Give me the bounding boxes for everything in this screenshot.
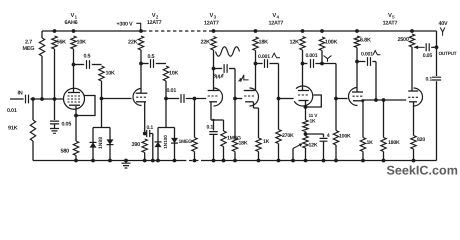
svg-text:1K: 1K xyxy=(263,139,270,145)
node 180K junction xyxy=(382,98,386,102)
wire 0.001 to corner V5 xyxy=(372,61,376,63)
wire 100K lower to ground xyxy=(335,145,337,161)
svg-text:270K: 270K xyxy=(282,133,294,139)
svg-text:10K: 10K xyxy=(169,71,179,77)
waveform mark 0.001 xyxy=(272,53,280,58)
waveform sine annotation xyxy=(216,47,240,57)
node ground clamp-2 left xyxy=(156,159,160,163)
svg-text:820: 820 xyxy=(417,137,425,143)
svg-text:1N88: 1N88 xyxy=(98,137,104,149)
resistor R25 2500 pot plate xyxy=(409,34,414,47)
svg-text:22K: 22K xyxy=(128,40,138,46)
resistor R10 1MEG grid leak V3 xyxy=(192,138,197,152)
resistor R8 10K series V2 xyxy=(163,66,168,81)
svg-text:12AT7: 12AT7 xyxy=(269,21,284,27)
wire V4-A cathode lead xyxy=(305,101,307,120)
wire ground bus left segment xyxy=(33,160,183,162)
wire to 4uF xyxy=(306,133,324,135)
diode CR1 1N88 xyxy=(90,142,97,147)
capacitor 0.1 cathode bypass V2 xyxy=(147,130,150,137)
tube V4-B envelope xyxy=(349,88,358,106)
wire 1MEG to ground xyxy=(194,152,196,161)
svg-text:1MEG: 1MEG xyxy=(179,139,193,145)
capacitor 4uF xyxy=(320,138,328,141)
node 1MEG grid leak xyxy=(193,97,197,101)
svg-text:100K: 100K xyxy=(325,40,338,46)
svg-text:1MEG: 1MEG xyxy=(227,136,241,142)
resistor R5 10K series xyxy=(99,66,104,81)
svg-text:0.001: 0.001 xyxy=(258,54,270,60)
node output xyxy=(435,45,439,49)
wire 0.05 to ground xyxy=(54,124,56,129)
node rail 100K upper xyxy=(320,29,324,33)
wire 580 to ground bus xyxy=(75,156,77,161)
svg-text:1N100: 1N100 xyxy=(163,135,168,149)
resistor R12 18K grid V3-B xyxy=(232,138,237,152)
wiper arrow 12K pot xyxy=(293,145,300,149)
node ground 270K xyxy=(277,159,281,163)
resistor R11 22K plate V3-A xyxy=(211,37,216,51)
wire V3-A plate lead xyxy=(213,69,215,91)
svg-text:1: 1 xyxy=(75,15,78,20)
resistor R15 1K cathode V3-B xyxy=(256,138,261,152)
wire grid line V1 xyxy=(30,98,63,100)
wire clamp-2 right leg xyxy=(174,128,176,161)
node ground 1K xyxy=(257,159,261,163)
wire 18K to ground xyxy=(234,152,236,161)
node ground 580 xyxy=(74,159,78,163)
wire clamp-2 top bar xyxy=(158,127,175,129)
capacitor 0.1 bypass V3-A xyxy=(209,132,217,135)
wire V1 suppressor-cathode loop xyxy=(76,96,95,116)
wire 0.05 cap lead xyxy=(54,99,56,120)
node rail 10K V1 xyxy=(72,29,76,33)
node V3-A plate xyxy=(212,67,216,71)
wire pot to V5 plate xyxy=(411,47,413,91)
wire 390 to ground xyxy=(144,153,146,161)
node cathode divider xyxy=(304,132,308,136)
node coupling V3 xyxy=(164,97,168,101)
wire 1K to pot xyxy=(305,132,307,137)
wire pot to ground xyxy=(305,148,307,161)
wire down to V4-B grid xyxy=(335,64,337,99)
capacitor 0.001 coupling V4 xyxy=(265,59,268,68)
svg-text:40V: 40V xyxy=(439,21,449,27)
wire cathode jog xyxy=(211,119,224,121)
wire output drop upper xyxy=(436,31,438,76)
capacitor 8uuf feedback xyxy=(224,64,227,73)
wire 4uF top lead xyxy=(323,134,325,137)
wire down to V4-A grid xyxy=(278,64,280,99)
wire +300V top rail left segment xyxy=(42,30,143,32)
waveform mark V4-B grid xyxy=(324,56,332,62)
wire to 1K xyxy=(258,108,260,138)
resistor R13 1MEG cathode V3-A xyxy=(221,131,226,147)
svg-text:2500: 2500 xyxy=(398,37,409,43)
node cathode output xyxy=(362,99,365,102)
wire 270K lead xyxy=(278,99,280,130)
svg-text:0.001: 0.001 xyxy=(361,52,373,58)
node ground 390 xyxy=(143,159,147,163)
svg-text:390: 390 xyxy=(132,142,141,148)
svg-text:5: 5 xyxy=(392,15,395,20)
wire clamp riser 2 xyxy=(165,99,167,128)
tube V5 envelope xyxy=(414,88,423,106)
resistor R22 6.8K plate V4-B xyxy=(354,36,359,48)
node V2 plate xyxy=(139,62,143,66)
svg-text:3: 3 xyxy=(214,15,217,20)
svg-text:0.05: 0.05 xyxy=(62,122,72,128)
wire 270K to ground xyxy=(278,144,280,161)
wire 22K to plate node xyxy=(140,50,142,64)
resistor R2 91K xyxy=(30,120,35,141)
node V2 grid xyxy=(100,97,104,101)
wire 0.01 to V3 grid xyxy=(186,98,206,100)
ground symbol at 0.05 xyxy=(50,129,59,134)
wire clamp-1 left leg xyxy=(92,128,94,161)
wire input lead xyxy=(10,98,24,100)
resistor R24 180K xyxy=(381,138,386,152)
node rail 56K xyxy=(53,29,57,33)
node V1 cathode tie xyxy=(74,114,78,118)
tube V1 6AH6 envelope xyxy=(64,88,85,109)
wire 0.1 bypass lead xyxy=(213,120,215,131)
svg-text:0.01: 0.01 xyxy=(7,108,17,114)
node rail 22K V3 xyxy=(212,29,216,33)
tube V3-B envelope xyxy=(250,88,259,106)
node ground 18K xyxy=(233,159,237,163)
tube V3-A envelope xyxy=(214,88,223,106)
wire ground stub xyxy=(125,161,127,164)
node V3-B grid xyxy=(233,97,237,101)
wire plate B to 0.001 xyxy=(256,63,263,65)
wire clamp-1 right leg xyxy=(109,128,111,161)
waveform mark V5 xyxy=(373,51,380,55)
node V4-A grid xyxy=(277,97,281,101)
svg-text:0.5: 0.5 xyxy=(84,54,91,60)
wire 0.1 bypass to ground xyxy=(213,135,215,161)
wire 180K lead xyxy=(383,100,385,138)
svg-text:OUTPUT: OUTPUT xyxy=(439,51,457,56)
resistor R26 820 cathode xyxy=(411,136,416,150)
svg-text:18K: 18K xyxy=(259,40,269,46)
wire 1MEG top lead xyxy=(194,99,196,138)
node +300V rail junction xyxy=(139,29,143,33)
wire 56K bottom lead xyxy=(54,49,56,99)
wire 12K to plate node xyxy=(302,50,304,64)
wire V2 cathode lead xyxy=(144,102,146,134)
svg-text:4: 4 xyxy=(327,133,330,139)
wire V4-A loop xyxy=(306,95,322,107)
resistor R17 12K plate V4-A xyxy=(300,37,305,51)
node 56K junction xyxy=(53,97,57,101)
wire plate A to 8uuf xyxy=(214,68,223,70)
wire 0.5 to 10K V2 xyxy=(156,63,166,65)
resistor R18 100K upper xyxy=(319,37,324,51)
node V3-B plate xyxy=(254,62,258,66)
wire V4-B cathode hook xyxy=(361,101,363,103)
capacitor 0.5 coupling V2 xyxy=(151,59,154,68)
wire to 1MEG cathode xyxy=(223,120,225,131)
diode CR3 1N100 xyxy=(155,142,162,147)
tube V4-A envelope xyxy=(294,86,313,106)
wire V3-B cathode hook xyxy=(253,102,255,108)
wire 18K to plate node xyxy=(255,51,257,64)
svg-text:IN: IN xyxy=(18,91,23,97)
svg-text:SeekIC.com: SeekIC.com xyxy=(387,164,458,178)
svg-text:12AT7: 12AT7 xyxy=(147,20,162,26)
svg-text:56K: 56K xyxy=(57,40,67,46)
node V4-A plate xyxy=(301,62,305,66)
svg-text:0.001: 0.001 xyxy=(306,53,318,59)
node ground 4uF xyxy=(322,159,326,163)
wire top rail right segment xyxy=(214,30,437,32)
wire plate to 0.001 V5 xyxy=(357,61,365,63)
node ground 180K xyxy=(382,159,386,163)
tube V1 plate xyxy=(68,92,80,94)
resistor R1 2.7 MEG xyxy=(39,38,44,56)
wire to V2 grid xyxy=(102,98,132,100)
node input junction xyxy=(31,97,35,101)
wire V1 plate lead xyxy=(73,65,75,93)
svg-text:580: 580 xyxy=(61,149,70,155)
resistor R21 12K pot xyxy=(303,136,308,148)
svg-text:10K: 10K xyxy=(77,40,87,46)
svg-text:0.1: 0.1 xyxy=(207,125,214,131)
wire 0.5 cap to 10K xyxy=(92,64,102,66)
wire 1K load to ground xyxy=(362,152,364,161)
wiper arrow 2500 pot xyxy=(418,46,425,48)
capacitor 0.05 bypass xyxy=(50,121,59,124)
node 0.001 junction xyxy=(374,98,378,102)
node rail 6.8K xyxy=(355,29,359,33)
capacitor 0.001 coupling V5 xyxy=(368,57,371,66)
node cathode jog xyxy=(212,119,214,121)
wire 1K load lead xyxy=(362,103,364,138)
diode CR2 1N88 xyxy=(107,139,114,144)
wire into V3-B grid xyxy=(235,98,242,100)
capacitor 0.01 coupling V3 xyxy=(181,94,184,103)
capacitor 0.5 coupling V1 xyxy=(87,60,90,69)
wire top rail dashed segment xyxy=(143,30,214,32)
wire 100K lower lead xyxy=(335,99,337,131)
svg-text:180K: 180K xyxy=(388,140,400,146)
wire 180K to ground xyxy=(383,152,385,161)
wire 100K to divider xyxy=(321,51,323,64)
node ground stub xyxy=(124,159,128,163)
node ground 1K load xyxy=(361,159,365,163)
svg-text:1K: 1K xyxy=(367,140,374,146)
svg-text:+300 V: +300 V xyxy=(117,22,134,28)
wire wiper lead xyxy=(292,149,294,161)
wire 10K down to V2 grid node xyxy=(101,81,103,99)
wire 1K to ground xyxy=(258,152,260,161)
resistor R14 18K plate V3-B xyxy=(253,37,258,51)
node ground 100K lower xyxy=(334,159,338,163)
svg-text:0.1: 0.1 xyxy=(426,77,433,83)
node ground 820 xyxy=(412,159,416,163)
wire V4-B plate lead xyxy=(356,62,358,93)
wire 0.05 to output line xyxy=(431,46,436,48)
svg-text:MEG: MEG xyxy=(23,46,35,52)
wire 0.1 jog xyxy=(150,133,153,135)
node ground wiper xyxy=(291,159,295,163)
node ground 1MEG cathode xyxy=(222,159,226,163)
wire 2.7MEG bottom lead xyxy=(41,56,43,99)
node V4-B grid xyxy=(334,97,338,101)
node divider xyxy=(320,62,324,66)
tube V1 grids xyxy=(68,96,81,102)
node ground clamp-2 right xyxy=(173,159,177,163)
wire V4-A plate lead xyxy=(302,64,304,91)
svg-text:10K: 10K xyxy=(106,71,116,77)
svg-text:100K: 100K xyxy=(339,134,351,140)
wire 4uF to ground xyxy=(323,141,325,160)
resistor R3 56K xyxy=(52,36,57,49)
wire 0.001 to corner xyxy=(269,63,278,65)
svg-text:6.8K: 6.8K xyxy=(360,38,371,44)
wire down to V5 grid line xyxy=(375,62,377,101)
tube V2 12AT7 envelope xyxy=(133,89,142,106)
node ground 0.1 V3-A xyxy=(212,159,216,163)
arrow +300V pointer xyxy=(136,23,140,30)
tube V1 cathode xyxy=(69,104,80,106)
wire down to V3-B grid xyxy=(234,69,236,99)
svg-text:2.7: 2.7 xyxy=(25,40,32,46)
wire into V4-A grid xyxy=(279,98,294,100)
waveform mark output 40V xyxy=(440,28,445,36)
wire 0.1 down to ground xyxy=(152,134,154,161)
wire cathode follower output to V5 grid xyxy=(362,99,407,101)
svg-text:91K: 91K xyxy=(8,126,18,132)
wire 22K to plate node V3-A xyxy=(213,50,215,69)
wire V5 cathode lead xyxy=(413,102,415,136)
node rail 12K xyxy=(301,29,305,33)
wire ground bus dashed segment xyxy=(183,160,202,162)
wire 1MEG cathode to ground xyxy=(223,147,225,161)
wire 8uuf to corner xyxy=(229,68,235,70)
wire plate node to 0.5 cap xyxy=(74,64,85,66)
wire into V4-B grid xyxy=(336,98,348,100)
capacitor C1 0.01 input xyxy=(26,95,29,104)
waveform mark grid B xyxy=(239,75,249,82)
node rail 18K V3-B xyxy=(254,29,258,33)
node ground 0.1 xyxy=(151,159,155,163)
svg-text:8μμf: 8μμf xyxy=(213,74,224,80)
svg-text:22K: 22K xyxy=(201,40,211,46)
svg-text:12AT7: 12AT7 xyxy=(383,21,398,27)
svg-text:1K: 1K xyxy=(310,118,317,124)
wire 10K down to coupling node xyxy=(165,81,167,99)
wire 820 to ground xyxy=(413,149,415,161)
wire grid leak lead V3-B xyxy=(234,99,236,139)
resistor R20 1K cathode V4-A xyxy=(303,120,308,132)
node V2 cathode RC xyxy=(143,132,147,136)
wire V2 plate lead xyxy=(140,64,142,94)
svg-text:0.1: 0.1 xyxy=(147,125,154,131)
node V1 plate xyxy=(72,63,76,67)
node ground 1MEG xyxy=(193,159,197,163)
wire 10K to plate node xyxy=(73,49,75,65)
svg-text:12AT7: 12AT7 xyxy=(204,21,219,27)
wire output drop lower xyxy=(436,81,438,160)
svg-text:12K: 12K xyxy=(309,143,318,149)
wire clamp riser 1 xyxy=(101,99,103,128)
wire V3-B plate lead xyxy=(255,64,257,91)
wire cathode jog B xyxy=(254,107,259,109)
node ground clamp-1 left xyxy=(91,159,95,163)
node ground clamp-1 right xyxy=(108,159,112,163)
wire 91K top lead xyxy=(32,99,34,120)
wire 6.8K to plate node xyxy=(356,48,358,62)
node rail 2500 pot xyxy=(410,29,414,33)
ground symbol main xyxy=(122,163,131,168)
capacitor 0.1 output series xyxy=(432,77,441,80)
wire plate node to 0.5 cap V2 xyxy=(141,63,149,65)
svg-text:4: 4 xyxy=(277,15,280,20)
diode CR4 1N100 xyxy=(171,138,178,143)
resistor R4 10K plate V1 xyxy=(71,36,76,49)
resistor R6 580 cathode xyxy=(73,141,78,156)
resistor R23 1K load xyxy=(360,138,365,152)
node V4-B plate xyxy=(355,60,359,64)
wire ground bus right segment xyxy=(202,160,437,162)
svg-text:6AH6: 6AH6 xyxy=(65,20,78,26)
wire clamp-2 left leg xyxy=(157,128,159,161)
wire 0.001 to V4-B grid node xyxy=(315,63,336,65)
wire clamp-1 top bar xyxy=(93,127,110,129)
wire V1 cathode lead xyxy=(75,106,77,141)
resistor R16 270K grid leak V4 xyxy=(276,130,281,144)
capacitor 0.001 coupling V4-B xyxy=(311,59,314,68)
svg-text:0.01: 0.01 xyxy=(167,88,177,94)
resistor R7 22K plate V2 xyxy=(138,36,143,50)
capacitor 0.05 output coupling xyxy=(426,43,429,51)
node 2.7MEG junction xyxy=(40,97,44,101)
svg-text:12K: 12K xyxy=(290,40,300,46)
node V4-A cathode tie xyxy=(304,105,308,109)
wire 91K bottom lead xyxy=(32,141,34,161)
wire 2.7MEG top lead xyxy=(41,31,43,38)
node ground pot xyxy=(304,159,308,163)
resistor R9 390 cathode xyxy=(142,139,147,153)
wire plate to 0.001 V4 xyxy=(303,63,308,65)
wire V3-A cathode lead xyxy=(210,102,212,120)
resistor R19 100K lower xyxy=(333,131,338,146)
svg-text:0.05: 0.05 xyxy=(423,53,433,59)
wire to 0.01 cap xyxy=(166,98,179,100)
svg-text:2: 2 xyxy=(156,15,159,20)
svg-text:0.5: 0.5 xyxy=(148,54,155,60)
